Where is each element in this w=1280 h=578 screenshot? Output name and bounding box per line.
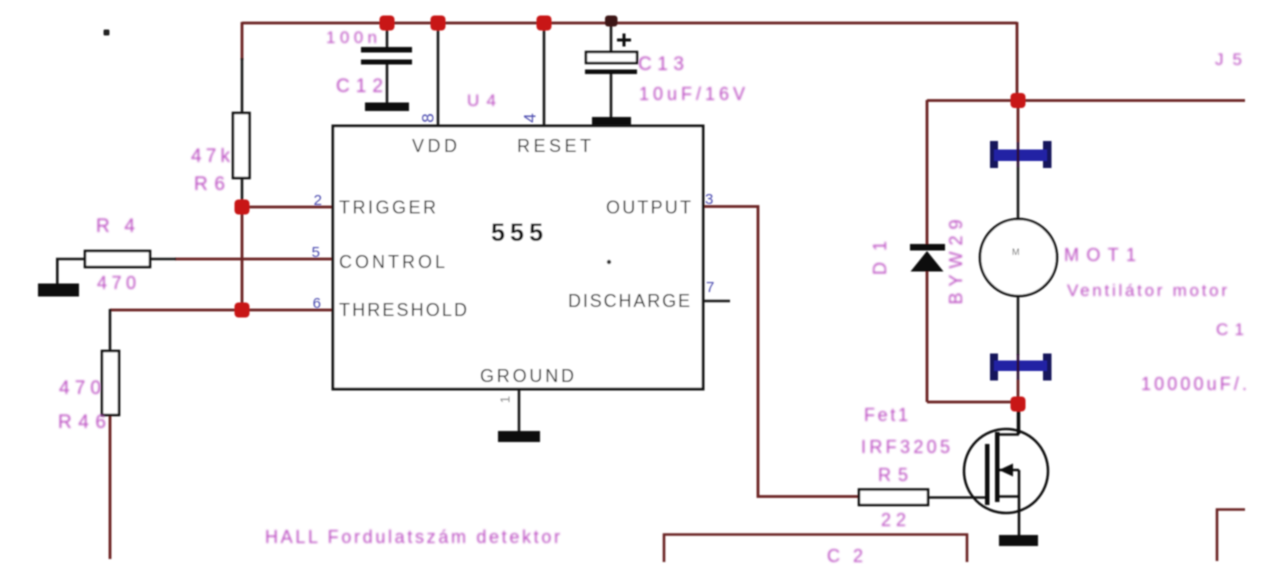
svg-text:470: 470: [97, 273, 136, 293]
svg-text:C13: C13: [638, 54, 684, 75]
svg-text:3: 3: [705, 191, 713, 208]
svg-text:555: 555: [491, 219, 543, 247]
svg-text:RESET: RESET: [517, 136, 591, 156]
svg-text:5: 5: [312, 244, 320, 261]
svg-text:1: 1: [497, 396, 512, 403]
svg-text:THRESHOLD: THRESHOLD: [339, 300, 467, 320]
svg-text:MOT1: MOT1: [1064, 245, 1136, 265]
svg-text:DISCHARGE: DISCHARGE: [568, 291, 690, 311]
svg-text:47k: 47k: [191, 146, 231, 167]
svg-text:VDD: VDD: [412, 136, 457, 156]
svg-text:M: M: [1012, 247, 1020, 257]
svg-text:4: 4: [520, 113, 539, 122]
svg-text:IRF3205: IRF3205: [861, 437, 950, 457]
svg-text:470: 470: [59, 378, 101, 399]
svg-text:2: 2: [314, 192, 322, 209]
svg-text:C12: C12: [336, 76, 383, 97]
svg-text:CONTROL: CONTROL: [339, 252, 445, 272]
svg-text:R46: R46: [58, 412, 106, 433]
svg-text:8: 8: [418, 113, 437, 122]
svg-text:Fet1: Fet1: [864, 405, 908, 425]
svg-text:7: 7: [706, 279, 714, 296]
svg-text:6: 6: [313, 295, 321, 312]
